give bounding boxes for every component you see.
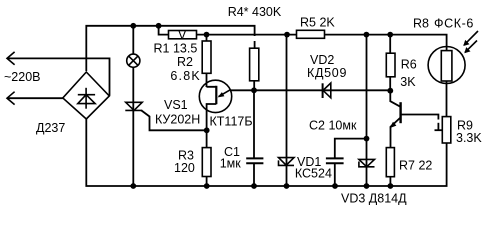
svg-text:КД509: КД509 <box>307 66 347 80</box>
svg-text:КТ117Б: КТ117Б <box>210 115 253 129</box>
svg-text:R2: R2 <box>177 55 193 69</box>
svg-text:R4* 430K: R4* 430K <box>228 5 282 19</box>
svg-text:R7 22: R7 22 <box>399 159 432 173</box>
svg-text:Д237: Д237 <box>36 121 65 135</box>
svg-text:120: 120 <box>174 161 195 175</box>
svg-text:VS1: VS1 <box>164 98 188 112</box>
svg-text:6.8K: 6.8K <box>170 69 201 83</box>
svg-text:1мк: 1мк <box>220 157 242 171</box>
svg-text:VD3 Д814Д: VD3 Д814Д <box>341 192 407 206</box>
svg-text:VD2: VD2 <box>310 53 334 67</box>
svg-text:R8: R8 <box>413 17 429 31</box>
svg-text:3K: 3K <box>400 75 416 89</box>
svg-text:3.3K: 3.3K <box>456 131 482 145</box>
svg-text:R1 13.5: R1 13.5 <box>154 42 198 56</box>
svg-text:V: V <box>178 28 187 42</box>
svg-text:C2 10мк: C2 10мк <box>309 119 357 133</box>
svg-text:~220В: ~220В <box>4 70 41 84</box>
svg-text:КС524: КС524 <box>295 167 332 181</box>
svg-text:R6: R6 <box>401 57 417 71</box>
svg-text:ФСК-6: ФСК-6 <box>434 17 474 31</box>
svg-text:R5 2K: R5 2K <box>300 16 335 30</box>
svg-text:КУ202Н: КУ202Н <box>155 112 200 126</box>
